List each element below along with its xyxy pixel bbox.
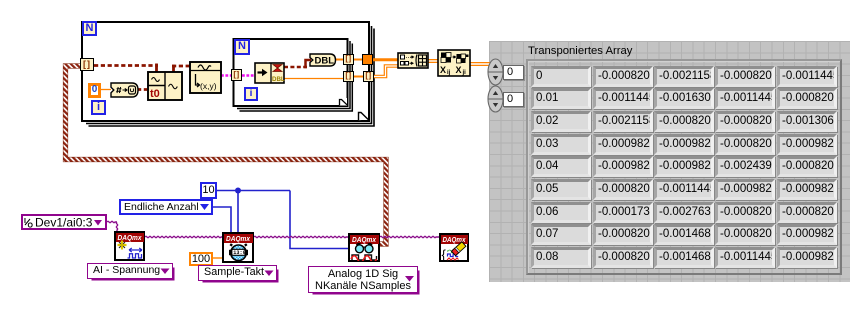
svg-text:DAQmx: DAQmx: [226, 236, 251, 243]
table row 7: [531, 224, 591, 245]
table row 4: [531, 156, 591, 177]
timestamp dashed wire: conversion to t0 input: [137, 88, 147, 91]
Variant-to-DBL convert node: [254, 62, 285, 84]
DAQmx Clear Task node: [439, 233, 469, 262]
inner for loop stacked border lines: [237, 41, 350, 109]
waveform dashed wire: Build Waveform to Get Waveform Components: [172, 65, 175, 72]
selector Sample-Takt: [198, 265, 277, 281]
Get Waveform Components node (x,y): [189, 61, 222, 94]
DAQmx Read node: [348, 233, 380, 262]
outer loop N badge: [82, 21, 97, 36]
svg-text:X: X: [440, 65, 446, 75]
DBL conversion bullet: [309, 53, 337, 67]
purple DAQmx task wire: [107, 221, 439, 237]
index spinner 1: [487, 58, 505, 86]
svg-text:DAQmx: DAQmx: [352, 237, 377, 244]
inner loop left tunnel: [231, 69, 242, 81]
outer loop fold corner: [359, 111, 369, 121]
Build Array node: [397, 52, 429, 69]
dashed wire: variant node to DBL bullet: [284, 66, 307, 69]
svg-text:⋯: ⋯: [406, 56, 412, 62]
outer loop solid orange indexing tunnel: [362, 54, 373, 65]
IO constant Dev1/ai0:3: [21, 214, 107, 230]
svg-text:t0: t0: [150, 88, 160, 100]
orange 2D wire: Transpose to array indicator: [470, 62, 490, 66]
numeric constant 10: [200, 182, 217, 199]
svg-text:X: X: [456, 65, 462, 75]
outer loop lower tunnel: [363, 71, 374, 82]
thick waveform-array hatched wire (DAQmx Read output to outer loop tunnel): [66, 66, 387, 244]
inner loop fold corner: [340, 98, 348, 106]
array table outer frame: [526, 59, 842, 275]
numeric constant 100: [189, 252, 213, 266]
selector Analog 1D Sig NKanäle NSamples: [308, 266, 418, 293]
index display 2: [503, 92, 524, 108]
inner loop right lower tunnel: [343, 71, 354, 82]
svg-text:ij: ij: [447, 70, 451, 76]
outer for loop main rect: [82, 22, 369, 121]
outer loop i badge: [91, 100, 106, 115]
orange wire: DBL bullet to inner upper tunnel: [335, 59, 343, 61]
inner loop right upper tunnel: [343, 54, 354, 65]
array label Transponiertes Array: [528, 44, 632, 59]
svg-text:O: O: [28, 223, 34, 229]
table row 3: [531, 134, 591, 155]
conversion node #->u32: [110, 82, 139, 98]
orange wire: inner lower tunnel to outer lower tunnel: [354, 76, 363, 78]
magenta wire: inner tunnel to convert node: [242, 74, 255, 77]
magenta cluster wire: components node to inner loop tunnel: [221, 74, 232, 77]
index display 1: [503, 65, 524, 81]
table row 1: [531, 88, 591, 109]
outer loop left tunnel: [80, 58, 94, 71]
front panel gray area: [489, 41, 850, 282]
table row 5: [531, 179, 591, 200]
svg-text:DBL: DBL: [315, 56, 335, 67]
orange wire: convert node to inner lower tunnel: [284, 78, 343, 80]
outer for loop stacked border lines: [86, 26, 372, 124]
Transpose 2D Array node: [437, 49, 471, 77]
table row 0: [531, 66, 591, 87]
selector AI - Spannung: [87, 263, 173, 279]
junction dot: [235, 188, 241, 194]
inner for loop main rect: [234, 39, 348, 106]
svg-text:13:0: 13:0: [233, 250, 245, 256]
waveform dashed wire: tunnel to Build Waveform: [94, 64, 158, 67]
inner loop N badge: [234, 39, 250, 55]
blue wire: Endliche Anzahl to Timing: [213, 207, 231, 232]
blue wire: 10 constant to junction and down to Timing: [217, 191, 348, 249]
table row 8: [531, 247, 591, 268]
inner loop i badge: [244, 87, 258, 101]
DAQmx Timing node: [222, 232, 254, 263]
svg-text:(x,y): (x,y): [200, 81, 217, 91]
Build Waveform node (t0): [147, 71, 183, 101]
orange wire: inner upper tunnel to outer solid tunnel: [354, 59, 362, 61]
svg-text:ji: ji: [462, 70, 467, 76]
numeric constant 0: [88, 83, 101, 98]
enum constant Endliche Anzahl: [119, 199, 213, 215]
table row 6: [531, 202, 591, 223]
table row 2: [531, 111, 591, 132]
svg-text:DBL: DBL: [272, 76, 285, 83]
orange 1D wire: outer lower tunnel to Build Array: [374, 66, 398, 77]
orange 2D wire: Build Array to Transpose: [428, 59, 438, 63]
DAQmx Create Virtual Channel node: [114, 231, 145, 261]
svg-text:Dev1/ai0:3: Dev1/ai0:3: [35, 216, 93, 228]
svg-text:{: {: [442, 247, 447, 261]
orange wire: 100 constant to Timing: [213, 257, 222, 259]
index spinner 2: [487, 85, 505, 113]
orange wire: 0 constant to conversion: [101, 89, 111, 91]
orange 2D wire: solid tunnel to Build Array: [373, 58, 398, 61]
